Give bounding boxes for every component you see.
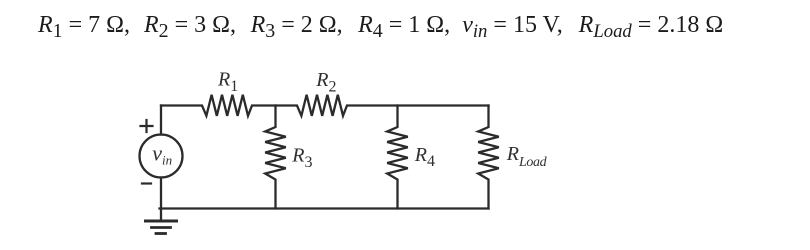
svg-text:R1: R1 (217, 69, 238, 95)
svg-text:R4: R4 (414, 144, 435, 170)
svg-text:vin: vin (152, 141, 172, 168)
svg-text:R3: R3 (291, 145, 312, 171)
svg-text:RLoad: RLoad (506, 143, 548, 170)
svg-text:R2: R2 (315, 69, 336, 95)
